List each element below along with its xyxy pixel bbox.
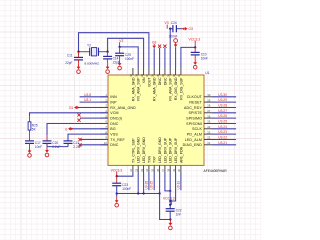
svg-text:100nF: 100nF <box>169 35 178 39</box>
wire pin 13 LED_DRV_GND down <box>143 173 145 194</box>
no-connect X pin 35 <box>158 45 161 48</box>
svg-text:G: G <box>65 127 68 131</box>
ground under C23 <box>115 197 119 207</box>
svg-text:U3-21: U3-21 <box>218 141 227 145</box>
wire pin 28 to net U3-28 <box>213 107 237 109</box>
wire pin 29 to net U3-29 <box>213 101 237 103</box>
pin 31 RX_DIG_SUP top stub <box>180 68 182 75</box>
capacitor C10 body <box>191 52 208 60</box>
pin 12 LED_DRV_GND bottom stub <box>137 165 139 172</box>
junction V3/C25 <box>118 46 120 48</box>
wire pin 15 TXP down <box>153 173 155 191</box>
pin 22 LED_ALM right stub <box>204 139 213 141</box>
pin 25 SPISOMI right stub <box>204 123 213 125</box>
svg-text:RX_ANA_GND: RX_ANA_GND <box>153 77 157 101</box>
wire pin 27 to net U3-27 <box>213 112 237 114</box>
pin 1 INN left stub <box>101 96 109 98</box>
svg-text:RX_ANA_SUP: RX_ANA_SUP <box>169 77 173 101</box>
resistor R25 5K <box>28 116 38 141</box>
capacitor C10 10nF <box>194 47 196 52</box>
ground G3 right of C24 <box>182 27 193 31</box>
svg-text:LED_DRV_SUP: LED_DRV_SUP <box>174 137 178 163</box>
svg-text:U3-30: U3-30 <box>218 93 227 97</box>
svg-text:100nF: 100nF <box>125 57 134 61</box>
svg-text:1nF: 1nF <box>176 213 182 217</box>
pin 10 DNC left stub <box>101 144 109 146</box>
junction C23/gnd bus <box>116 192 118 194</box>
wire pin 20 AFE_PDN down <box>180 173 182 191</box>
capacitor C11 body <box>74 57 83 60</box>
svg-text:DNC(I): DNC(I) <box>110 116 122 120</box>
svg-text:LED_DRV_GND: LED_DRV_GND <box>137 137 141 163</box>
op-amp U1 AFE4400 IC body <box>108 75 204 165</box>
junction C22/gnd bus <box>169 218 171 220</box>
svg-text:C11: C11 <box>67 54 73 58</box>
ground under C11 <box>77 63 81 73</box>
ground under C22 <box>169 220 173 230</box>
pin 35 DNC top stub <box>159 68 161 75</box>
wire gnd bus down to ground <box>160 194 171 220</box>
no-connect pins 35/34 DNC <box>159 48 161 68</box>
svg-text:8.000MHZ: 8.000MHZ <box>85 61 100 65</box>
capacitor C14 body <box>103 56 120 64</box>
pin 27 SPISTE right stub <box>204 112 213 114</box>
ground under C17 <box>28 147 32 157</box>
wire LED_DRV_GND bus <box>117 193 160 195</box>
pin 2 INP left stub <box>101 101 109 103</box>
no-connect X pin 9 <box>78 138 81 141</box>
pin 11 TX_CTRL_SUP bottom stub <box>132 165 134 172</box>
pin 6 DNC left stub <box>101 123 109 125</box>
ground under C10 <box>193 59 197 69</box>
wire pin 18 LED_DRV_SUP down <box>169 173 171 209</box>
no-connect pin9 TX_REF <box>81 139 109 141</box>
svg-text:U3-22: U3-22 <box>218 136 227 140</box>
svg-text:ADC_RDY: ADC_RDY <box>184 106 202 110</box>
svg-text:G1: G1 <box>69 106 74 110</box>
ground under C14 <box>106 63 110 73</box>
svg-text:DNC: DNC <box>110 143 118 147</box>
pin 9 TX_REF left stub <box>101 139 109 141</box>
svg-text:U3-28: U3-28 <box>218 104 227 108</box>
junction pin16/bus <box>158 192 160 194</box>
pin 38 XIN top stub <box>143 68 145 75</box>
svg-text:RX_ANA_SUP: RX_ANA_SUP <box>137 77 141 101</box>
wire pin 14 TXN down <box>148 173 150 191</box>
no-connect pin10 DNC <box>81 144 109 146</box>
pin 19 LED_DRV_SUP bottom stub <box>175 165 177 172</box>
capacitor C24 100nF <box>170 28 173 30</box>
capacitor C14 22pF <box>107 52 109 57</box>
wire V3 rail to RX_ANA_SUP pin 39 <box>120 47 139 68</box>
pin 40 RX_ANA_GND top stub <box>132 68 134 75</box>
svg-text:TX_CTRL_SUP: TX_CTRL_SUP <box>131 138 135 163</box>
svg-text:DNC: DNC <box>158 77 162 85</box>
svg-text:U3-29: U3-29 <box>218 98 227 102</box>
svg-text:22pF: 22pF <box>65 61 72 65</box>
pin 17 LED_DRV_SUP bottom stub <box>164 165 166 172</box>
pin 24 SCLK right stub <box>204 128 213 130</box>
pin 36 RX_ANA_GND top stub <box>153 68 155 75</box>
wire pin 22 to net U3-22 <box>213 139 237 141</box>
ground G1 on pin 3 <box>69 106 79 110</box>
svg-text:AFE_PDN: AFE_PDN <box>179 146 183 163</box>
wire pin 30 to net U3-30 <box>213 96 237 98</box>
svg-text:G3: G3 <box>189 27 194 31</box>
pin 20 AFE_PDN bottom stub <box>180 165 182 172</box>
svg-text:U3-19: U3-19 <box>176 181 180 190</box>
pin 16 LED_DRV_GND bottom stub <box>159 165 161 172</box>
svg-text:SCLK: SCLK <box>192 127 202 131</box>
pin 3 RX_ANA_GND left stub <box>101 107 109 109</box>
crystal Y2 <box>85 43 100 65</box>
capacitor C22 body <box>166 209 182 217</box>
capacitor C21 body <box>64 141 82 149</box>
svg-text:PD_ALM: PD_ALM <box>187 132 202 136</box>
wire RX_ANA_GND pin3 <box>78 107 108 109</box>
wire VCC3.3 to pin 31 RX_DIG_SUP <box>181 47 195 68</box>
svg-text:TXN: TXN <box>147 156 151 163</box>
ground G on pin 7 BG <box>65 127 73 131</box>
svg-text:U3-27: U3-27 <box>218 109 227 113</box>
pin 30 CLKOUT right stub <box>204 96 213 98</box>
wire pin 21 to net U3-21 <box>213 144 237 146</box>
svg-text:Y2: Y2 <box>87 43 91 47</box>
pin 37 XOUT top stub <box>148 68 150 75</box>
svg-text:RX_ANA_GND: RX_ANA_GND <box>110 106 136 110</box>
wire pin6 DNC to C20 <box>47 124 108 136</box>
wire BG pin7 <box>72 128 108 130</box>
svg-text:BG: BG <box>110 127 116 131</box>
svg-text:AFE4400RHAR: AFE4400RHAR <box>204 169 228 173</box>
capacitor C17 body <box>25 141 42 149</box>
wire INP <box>80 101 108 103</box>
svg-text:DNC: DNC <box>163 77 167 85</box>
svg-text:G3: G3 <box>152 40 157 44</box>
wire pin 23 to net U3-23 <box>213 133 237 135</box>
wire pin 24 to net U3-24 <box>213 128 237 130</box>
ground under C25 <box>118 60 122 70</box>
svg-text:VCC3.3: VCC3.3 <box>163 196 175 200</box>
pin 7 BG left stub <box>101 128 109 130</box>
svg-text:C24: C24 <box>171 21 177 25</box>
wire pin 12 LED_DRV_GND down <box>137 173 139 194</box>
pin 5 DNC(I) left stub <box>101 117 109 119</box>
capacitor C20 body <box>43 141 61 149</box>
capacitor C23 100nF <box>116 176 118 183</box>
svg-text:10nF: 10nF <box>201 56 208 60</box>
svg-text:DIAG_END: DIAG_END <box>183 143 203 147</box>
no-connect pin5 DNC <box>80 117 108 119</box>
ground G3 above pin 36 <box>152 40 157 48</box>
svg-text:XIN: XIN <box>142 77 146 83</box>
wire pin 16 LED_DRV_GND down <box>159 173 161 194</box>
pin 14 TXN bottom stub <box>148 165 150 172</box>
ground under C20 <box>45 147 49 157</box>
pin 28 ADC_RDY right stub <box>204 107 213 109</box>
pin 29 RESET right stub <box>204 101 213 103</box>
svg-text:U3-25: U3-25 <box>150 181 154 190</box>
svg-text:U1: U1 <box>205 71 209 75</box>
svg-text:U3-26: U3-26 <box>218 114 227 118</box>
junction pin17/pin18 <box>169 190 171 192</box>
wire pin 25 to net U3-25 <box>213 123 237 125</box>
svg-text:RX_ANA_GND: RX_ANA_GND <box>131 77 135 101</box>
wire pin 19 LED_DRV_SUP <box>170 173 175 202</box>
wire crystal leads <box>79 51 90 53</box>
svg-text:LED_ALM: LED_ALM <box>185 138 202 142</box>
wire VCM pin4 to R25 <box>30 113 109 116</box>
svg-text:XOUT: XOUT <box>147 77 151 88</box>
junction V3/C24 <box>169 28 171 30</box>
svg-text:U3-23: U3-23 <box>218 130 227 134</box>
capacitor C11 22pF <box>78 52 80 58</box>
svg-text:RESET: RESET <box>189 100 202 104</box>
capacitor C25 body <box>115 53 134 61</box>
pin 18 LED_DRV_SUP bottom stub <box>169 165 171 172</box>
pin 39 RX_ANA_SUP top stub <box>137 68 139 75</box>
pin 13 LED_DRV_GND bottom stub <box>143 165 145 172</box>
junction VCC3.3 attach <box>169 204 171 206</box>
junction pin13/bus <box>142 192 144 194</box>
wire inner rail XIN to crystal-right <box>108 38 144 68</box>
svg-text:LED_DRV_GND: LED_DRV_GND <box>142 137 146 163</box>
svg-text:100nF: 100nF <box>122 187 131 191</box>
svg-text:INN: INN <box>110 95 117 99</box>
svg-text:U3-26: U3-26 <box>144 181 148 190</box>
svg-text:V3: V3 <box>165 21 169 25</box>
wire VSS pin8 to C21 <box>68 134 108 141</box>
svg-text:U3-24: U3-24 <box>218 125 227 129</box>
no-connect X pin 5 <box>77 119 80 122</box>
svg-text:10nF: 10nF <box>35 145 42 149</box>
pin 4 VCM left stub <box>101 112 109 114</box>
svg-text:RX_DIG_SUP: RX_DIG_SUP <box>179 77 183 100</box>
svg-text:SPISTE: SPISTE <box>188 111 202 115</box>
junction VCC3.3/C23 <box>116 175 118 177</box>
svg-text:LED_DRV_GND: LED_DRV_GND <box>158 137 162 163</box>
junction VCC3.3/C10 <box>194 46 196 48</box>
junction pin19 join <box>169 200 171 202</box>
pin 26 SPISIMO right stub <box>204 117 213 119</box>
svg-text:CLKOUT: CLKOUT <box>187 95 203 99</box>
junction crystal-right/C14 <box>77 51 79 53</box>
svg-text:VCM: VCM <box>110 111 118 115</box>
svg-text:LED_DRV_SUP: LED_DRV_SUP <box>169 137 173 163</box>
svg-text:RX_DIG_GND: RX_DIG_GND <box>174 77 178 100</box>
svg-text:SPISOMI: SPISOMI <box>186 122 202 126</box>
wire C20/C21 bottoms join <box>46 143 48 146</box>
wire pin 11 TX_CTRL_SUP to VCC3.3/C23 <box>117 173 133 177</box>
capacitor C25 100nF <box>119 47 121 53</box>
svg-text:VSS: VSS <box>110 132 118 136</box>
wire INN <box>80 96 108 98</box>
pin 32 RX_DIG_GND top stub <box>175 68 177 75</box>
pin 8 VSS left stub <box>101 133 109 135</box>
pin 23 PD_ALM right stub <box>204 133 213 135</box>
wire pin 17 LED_DRV_SUP <box>165 173 170 191</box>
wire outer rail XOUT to crystal-left <box>79 33 149 68</box>
svg-text:TX_REF: TX_REF <box>110 138 125 142</box>
ground above pin 32 RX_DIG_GND <box>174 39 178 48</box>
svg-text:VCC3.3: VCC3.3 <box>189 37 201 41</box>
pin 15 TXP bottom stub <box>153 165 155 172</box>
no-connect X mark a <box>77 113 80 116</box>
no-connect X pin 10 <box>78 143 81 146</box>
capacitor C23 body <box>112 183 131 191</box>
wire pin 26 to net U3-26 <box>213 117 237 119</box>
svg-text:SPISIMO: SPISIMO <box>186 116 202 120</box>
svg-text:DNC: DNC <box>110 122 118 126</box>
pin 33 RX_ANA_SUP top stub <box>169 68 171 75</box>
svg-text:INP: INP <box>110 100 117 104</box>
svg-text:U3-25: U3-25 <box>218 120 227 124</box>
junction pin12/bus <box>137 192 139 194</box>
pin 34 DNC top stub <box>164 68 166 75</box>
svg-text:TXP: TXP <box>153 156 157 163</box>
svg-text:LED_DRV_SUP: LED_DRV_SUP <box>163 137 167 163</box>
pin 21 DIAG_END right stub <box>204 144 213 146</box>
wire pin 33 RX_ANA_SUP up to V3/C24 node <box>169 29 171 68</box>
no-connect X pin 34 <box>163 45 166 48</box>
